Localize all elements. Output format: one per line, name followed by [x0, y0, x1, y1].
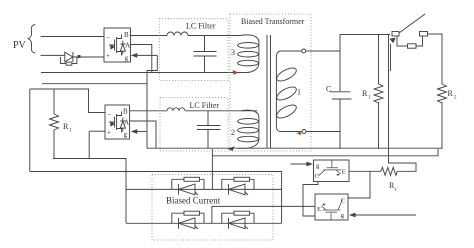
- resistor R2: [438, 84, 447, 149]
- Biased Current box: [152, 175, 273, 241]
- capacitor C_lc1: [194, 36, 217, 73]
- svg-text:−: −: [108, 111, 112, 119]
- wire PV top: [41, 36, 105, 38]
- svg-text:Biased Transformer: Biased Transformer: [241, 17, 305, 26]
- line4 wire: [42, 83, 147, 85]
- red arrow at winding3 bottom: [233, 70, 239, 75]
- SCR4: [222, 211, 254, 229]
- g1 jog wire: [147, 55, 157, 148]
- inductor L1: [167, 32, 188, 36]
- snubber around diode: [61, 57, 77, 64]
- left box wires: [30, 89, 105, 172]
- right big box left edge + C: [339, 35, 341, 149]
- svg-text:1: 1: [69, 129, 72, 134]
- resistor R1 left: [50, 89, 59, 159]
- red arrow at node bottom: [296, 131, 301, 136]
- switch: [392, 32, 399, 37]
- module2 plus drop: [88, 131, 90, 158]
- transformer core: [267, 35, 271, 148]
- LC Filter box 2: [160, 98, 228, 152]
- svg-text:g: g: [125, 54, 129, 62]
- capacitor C_lc2: [197, 111, 221, 148]
- svg-text:+: +: [107, 129, 111, 137]
- driver box 1: [314, 160, 350, 182]
- C1 chain: [303, 182, 318, 217]
- C2 drop wire: [348, 171, 370, 198]
- driver box 2: [315, 194, 348, 220]
- arrow into driver1 g: [291, 163, 308, 165]
- arrow near switch: [390, 44, 392, 71]
- svg-text:LC Filter: LC Filter: [186, 21, 216, 30]
- bus main: [147, 147, 442, 149]
- diode D_pv: [61, 52, 105, 62]
- svg-text:3: 3: [231, 48, 235, 57]
- loop line from left box: [30, 172, 282, 224]
- module2 wires: [89, 130, 105, 132]
- node top: [280, 50, 302, 52]
- svg-text:g: g: [124, 131, 128, 139]
- SCR1: [172, 177, 204, 195]
- SCR3: [172, 211, 204, 229]
- svg-text:−: −: [107, 34, 111, 42]
- E1 wire to Rs: [349, 170, 381, 172]
- svg-text:B: B: [124, 31, 129, 39]
- wire U1 A jog: [131, 45, 152, 73]
- SCR row2: [126, 222, 282, 224]
- arrow into U2 g: [137, 131, 147, 133]
- line2 lower bus: [212, 149, 438, 156]
- internal vertical R1 branch: [378, 35, 380, 149]
- svg-text:E: E: [317, 206, 321, 213]
- svg-text:PV: PV: [13, 40, 27, 51]
- svg-text:2: 2: [231, 128, 235, 137]
- vertical drop to SCR row1: [211, 149, 213, 190]
- SCR row1: [126, 188, 282, 190]
- arrow into U1 g: [137, 54, 157, 56]
- svg-text:E: E: [342, 168, 346, 175]
- inductor L2: [167, 108, 185, 111]
- resistor R1 right: [374, 84, 383, 103]
- red arrow at busMain/winding2: [228, 146, 235, 151]
- node bottom: [281, 131, 302, 133]
- svg-text:B: B: [123, 108, 128, 116]
- SCR2: [222, 177, 254, 195]
- bus R1 bottom: [53, 159, 126, 224]
- svg-text:1: 1: [297, 88, 301, 97]
- svg-text:LC Filter: LC Filter: [190, 101, 220, 110]
- switch bypass resistor: [397, 36, 408, 46]
- svg-text:g: g: [341, 212, 345, 219]
- wire U2 A jog: [130, 121, 156, 148]
- svg-text:A: A: [125, 42, 130, 50]
- svg-text:+: +: [106, 52, 110, 60]
- IGBT module U2: [105, 105, 130, 139]
- internal vertical to Rs: [389, 35, 417, 172]
- resistor Rs: [381, 167, 397, 175]
- IGBT module U1: [104, 28, 131, 62]
- svg-text:Biased Current: Biased Current: [166, 196, 221, 206]
- svg-text:R: R: [362, 89, 368, 98]
- svg-text:2: 2: [454, 96, 457, 101]
- svg-text:C: C: [341, 197, 345, 204]
- svg-text:g: g: [316, 163, 320, 170]
- svg-text:s: s: [395, 188, 397, 193]
- arrow into driver2 g: [355, 214, 416, 216]
- wire U2 B to LC2: [130, 110, 167, 112]
- long wire line3: [41, 72, 245, 74]
- node tick after diode: [78, 56, 80, 58]
- Biased Transformer box: [230, 14, 311, 151]
- svg-text:R: R: [448, 89, 454, 98]
- svg-text:1: 1: [369, 96, 372, 101]
- LC Filter box 1: [159, 19, 228, 81]
- wire U1 B to LC1: [131, 35, 168, 37]
- svg-text:C: C: [315, 173, 319, 180]
- PV brace: [28, 25, 35, 53]
- wire PV bottom left: [41, 54, 61, 56]
- wire row2 to driver2 E: [212, 206, 315, 223]
- right box top edge: [340, 34, 390, 36]
